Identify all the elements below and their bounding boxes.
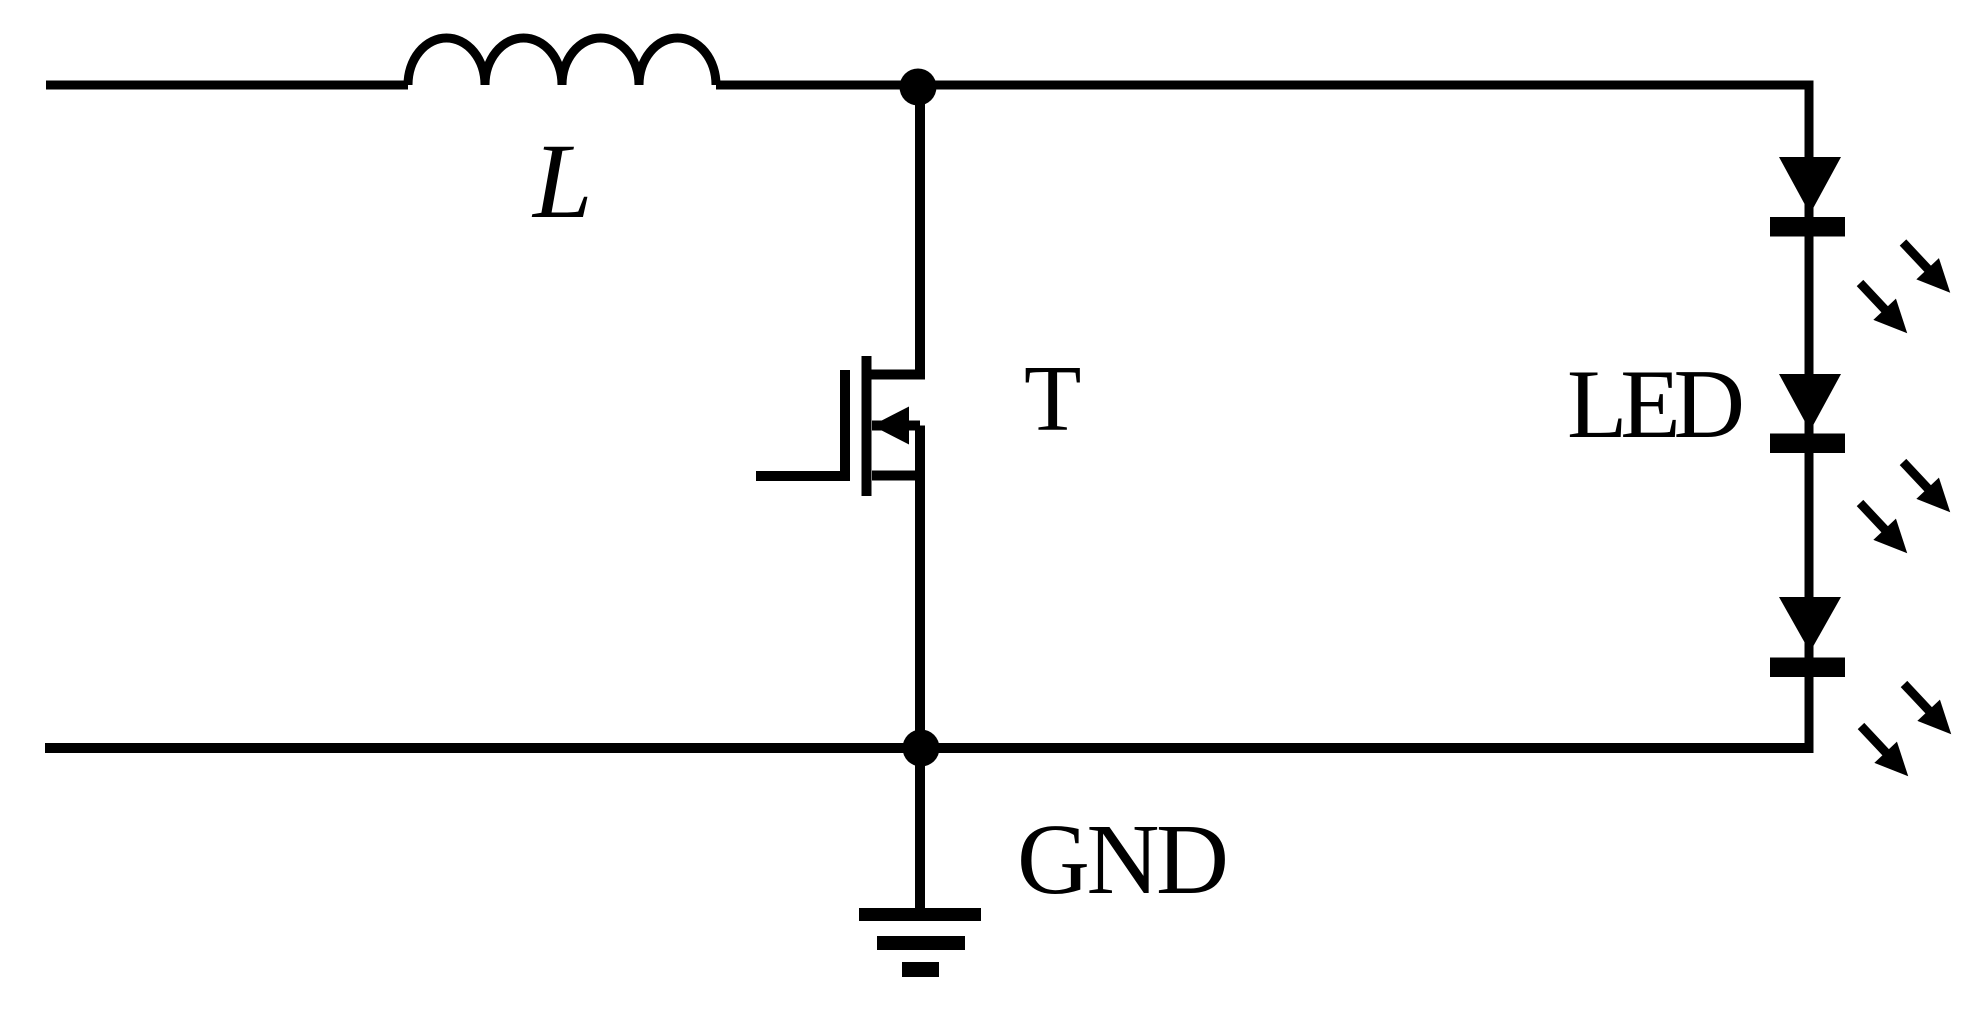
wire body connection: [872, 421, 920, 431]
transistor T body arrow: [872, 407, 909, 445]
LED D1 cathode bar: [1770, 217, 1845, 237]
light arrow 2b: [1849, 492, 1919, 564]
svg-text:T: T: [1024, 347, 1081, 451]
light arrow 3a: [1893, 673, 1963, 745]
LED D1 triangle: [1779, 157, 1841, 214]
node top junction: [900, 69, 937, 106]
ground bar 3: [902, 962, 939, 977]
ground bar 1: [859, 908, 981, 921]
svg-text:LED: LED: [1567, 350, 1745, 459]
inductor L: [408, 38, 716, 85]
light arrow 2a: [1892, 451, 1962, 523]
light arrow 3b: [1850, 715, 1920, 787]
wire gate lead: [756, 471, 845, 481]
transistor T channel bar: [862, 356, 872, 496]
wire mosfet drain vertical + drain horizontal: [863, 87, 920, 375]
light arrow 1a: [1892, 232, 1962, 304]
transistor T gate bar: [840, 370, 850, 481]
wire source connection: [872, 471, 920, 481]
LED D3 triangle: [1779, 597, 1841, 652]
ground bar 2: [877, 936, 965, 950]
wire top-left input segment: [46, 81, 408, 90]
LED D3 cathode bar: [1770, 658, 1845, 678]
svg-text:GND: GND: [1017, 803, 1229, 915]
light arrow 1b: [1849, 272, 1919, 344]
wire ground stem: [915, 748, 925, 908]
svg-text:L: L: [531, 123, 593, 241]
wire bottom (y alignment tweak): [45, 743, 1814, 753]
LED D2 cathode bar: [1770, 434, 1845, 454]
LED D2 triangle: [1779, 374, 1841, 431]
wire top from inductor to right corner and down right side: [716, 85, 1809, 753]
node bottom junction: [903, 730, 940, 767]
wire mosfet source vertical down to bottom junction: [915, 426, 925, 749]
